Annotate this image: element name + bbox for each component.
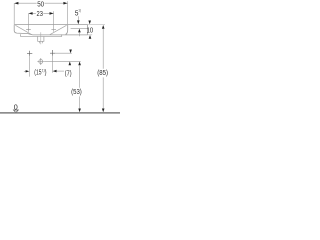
supply crosshair right stub down xyxy=(52,56,54,73)
svg-text:): ) xyxy=(45,67,47,76)
dim 50 arrow right xyxy=(63,2,67,5)
dim 5 upper arrow (down) xyxy=(77,20,80,24)
dim 5 lower stub xyxy=(78,32,80,36)
svg-text:(7): (7) xyxy=(65,68,72,77)
drain crosshair circle xyxy=(39,60,43,64)
dim (15) arrow pointing right at supply line xyxy=(26,70,30,72)
bowl silhouette right diagonal xyxy=(50,25,67,34)
dim (85) line upper xyxy=(102,29,104,69)
dim (85) top arrow (up at rim) xyxy=(102,25,105,29)
dim (15) arrow pointing left at right supply line xyxy=(53,70,57,73)
dim 23 line xyxy=(31,12,51,14)
dim (53) top arrow (up at drain line) xyxy=(78,62,81,66)
dim 10 upper arrow (down at rim) xyxy=(88,21,91,25)
drain crosshair cross xyxy=(37,58,44,65)
svg-text:(85): (85) xyxy=(97,68,108,77)
dim (53) line upper xyxy=(79,65,81,88)
svg-text:10: 10 xyxy=(87,26,94,35)
svg-text:23: 23 xyxy=(37,9,43,18)
dim (53) line lower xyxy=(79,96,81,110)
dim 50 extension line right xyxy=(67,1,69,24)
dim (7) upper arrow (down at supply line) xyxy=(69,50,72,54)
tap hole crosshair right xyxy=(51,28,56,30)
dim 23 arrow right xyxy=(50,12,54,15)
dim (15) lead-in line left xyxy=(24,70,26,72)
tap hole crosshair left xyxy=(26,27,31,32)
dim (7) lower arrow (up at drain line) xyxy=(69,62,72,66)
trap box xyxy=(38,37,44,42)
supply height reference line to (7) dim xyxy=(55,52,72,54)
svg-text:(15: (15 xyxy=(34,67,41,76)
dim (53) bottom arrow (down at floor) xyxy=(78,109,81,113)
supply crosshair left stub down xyxy=(29,56,31,77)
svg-text:1): 1) xyxy=(78,9,81,13)
dim (85) bottom arrow (down at floor) xyxy=(102,109,105,113)
svg-text:(53): (53) xyxy=(71,87,82,96)
washbasin front view right corner xyxy=(66,25,68,35)
dim 50 extension line left xyxy=(13,3,15,24)
side view deck line xyxy=(71,27,88,29)
dim 50 arrow left xyxy=(14,2,18,5)
basin lower tray xyxy=(21,34,62,36)
bottom extension line to the right xyxy=(88,34,93,36)
floor line xyxy=(0,112,120,114)
dim 23 extension line left (through tap cross) xyxy=(27,13,29,27)
basin centerline xyxy=(40,32,42,44)
supply crosshair left xyxy=(27,51,32,56)
dim (85) line lower xyxy=(102,77,104,110)
dim 23 extension line right (through tap cross) xyxy=(53,11,55,32)
reference line at drain height xyxy=(44,60,80,62)
dim 23 arrow left xyxy=(28,12,32,15)
svg-text:50: 50 xyxy=(37,0,44,9)
washbasin front view outline xyxy=(14,25,87,35)
bowl silhouette left diagonal xyxy=(15,25,31,34)
datum triangle xyxy=(14,110,19,113)
washbasin rim top line (front + side view + extension to right) xyxy=(14,24,87,26)
dim 50 line xyxy=(17,2,65,4)
dim 10 lower arrow (up at bottom line) xyxy=(89,35,92,39)
dim 5 lower arrow (up at deck line) xyxy=(78,29,81,33)
supply crosshair right xyxy=(50,50,55,56)
dim (15) line right xyxy=(57,70,64,72)
side view front edge xyxy=(86,25,88,35)
dim 5 stub xyxy=(77,16,79,20)
trap pipe stub xyxy=(39,41,42,43)
